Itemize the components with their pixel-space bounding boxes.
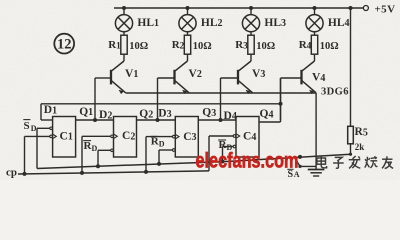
svg-text:HL3: HL3 — [264, 17, 286, 29]
svg-text:V4: V4 — [312, 72, 325, 84]
svg-text:V3: V3 — [252, 68, 265, 80]
svg-text:D: D — [159, 139, 165, 148]
svg-text:HL1: HL1 — [137, 17, 159, 29]
svg-text:D: D — [92, 144, 98, 153]
svg-text:R3: R3 — [235, 39, 248, 51]
svg-text:2k: 2k — [355, 142, 365, 152]
svg-text:10Ω: 10Ω — [320, 41, 339, 52]
svg-text:Q2: Q2 — [139, 108, 153, 120]
svg-text:R4: R4 — [299, 39, 312, 51]
svg-text:D1: D1 — [44, 104, 57, 116]
svg-text:R2: R2 — [172, 39, 185, 51]
svg-text:D4: D4 — [224, 110, 237, 122]
svg-text:S: S — [24, 120, 30, 132]
svg-text:cp: cp — [6, 166, 17, 178]
svg-text:C4: C4 — [243, 131, 256, 143]
svg-text:R5: R5 — [355, 126, 368, 138]
svg-text:12: 12 — [57, 37, 72, 53]
svg-text:10Ω: 10Ω — [256, 41, 275, 52]
svg-text:3DG6: 3DG6 — [321, 87, 349, 98]
svg-text:Q1: Q1 — [79, 106, 93, 118]
svg-text:HL4: HL4 — [328, 17, 350, 29]
svg-text:10Ω: 10Ω — [193, 41, 212, 52]
svg-text:10Ω: 10Ω — [129, 41, 148, 52]
svg-text:+5V: +5V — [375, 3, 396, 15]
svg-text:C2: C2 — [122, 130, 135, 142]
svg-text:elecfans.com: elecfans.com — [196, 149, 299, 172]
svg-text:C3: C3 — [183, 131, 196, 143]
svg-text:D: D — [31, 124, 37, 133]
svg-text:V2: V2 — [189, 68, 202, 80]
svg-text:HL2: HL2 — [201, 17, 223, 29]
svg-text:V1: V1 — [125, 68, 138, 80]
svg-text:Q3: Q3 — [202, 107, 216, 119]
svg-text:C1: C1 — [60, 130, 73, 142]
svg-text:Q4: Q4 — [260, 108, 274, 120]
svg-text:D2: D2 — [99, 109, 112, 121]
svg-text:D3: D3 — [158, 108, 171, 120]
svg-text:R1: R1 — [108, 39, 121, 51]
